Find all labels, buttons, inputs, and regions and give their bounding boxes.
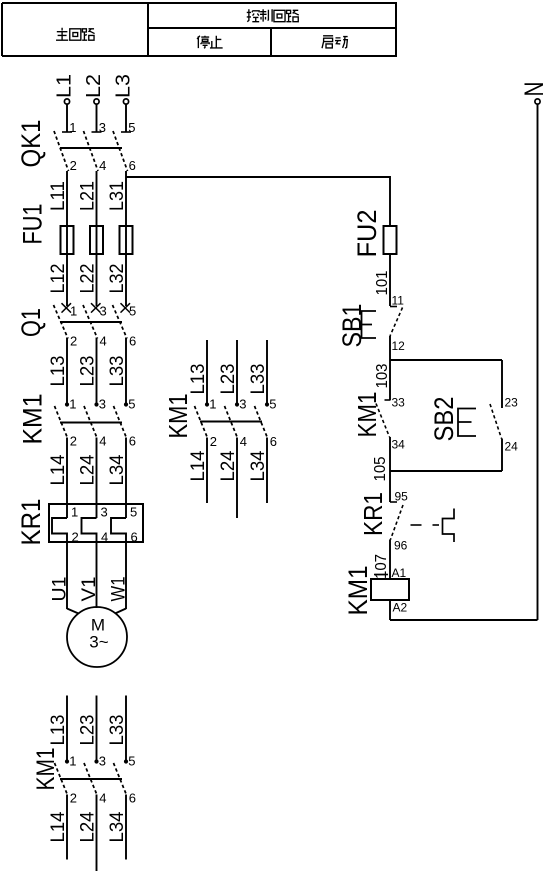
svg-text:KM1: KM1: [343, 566, 373, 616]
svg-text:3: 3: [101, 505, 108, 520]
svg-text:33: 33: [392, 396, 406, 410]
svg-text:N: N: [519, 82, 546, 97]
svg-text:KM1: KM1: [18, 394, 48, 445]
svg-text:L34: L34: [107, 454, 128, 485]
svg-text:L33: L33: [107, 356, 128, 387]
svg-text:SB1: SB1: [337, 304, 367, 348]
svg-text:101: 101: [374, 270, 391, 295]
svg-text:KM1: KM1: [32, 748, 60, 791]
svg-text:1: 1: [69, 120, 76, 135]
svg-text:2: 2: [210, 434, 217, 449]
svg-text:L13: L13: [188, 364, 209, 395]
svg-text:L1: L1: [54, 74, 76, 98]
svg-text:L33: L33: [107, 715, 128, 746]
svg-text:4: 4: [240, 434, 247, 449]
svg-text:L31: L31: [107, 181, 128, 211]
svg-text:L24: L24: [78, 811, 99, 842]
svg-text:1: 1: [69, 397, 76, 412]
svg-text:4: 4: [99, 434, 106, 449]
svg-text:L23: L23: [78, 356, 99, 387]
svg-text:W1: W1: [109, 577, 130, 602]
svg-text:KM1: KM1: [163, 394, 193, 439]
svg-text:L34: L34: [248, 450, 269, 481]
svg-text:96: 96: [394, 539, 408, 553]
svg-text:6: 6: [129, 334, 136, 349]
svg-text:5: 5: [269, 397, 276, 412]
svg-text:24: 24: [505, 440, 519, 454]
svg-text:5: 5: [128, 120, 135, 135]
svg-text:5: 5: [129, 304, 136, 319]
svg-text:L34: L34: [107, 811, 128, 842]
svg-text:L24: L24: [218, 450, 239, 481]
svg-text:L12: L12: [48, 264, 69, 294]
svg-text:4: 4: [99, 158, 106, 173]
svg-text:1: 1: [71, 505, 78, 520]
svg-text:V1: V1: [79, 577, 100, 602]
svg-text:U1: U1: [50, 577, 71, 602]
svg-text:12: 12: [392, 339, 406, 353]
svg-text:1: 1: [209, 397, 216, 412]
svg-text:5: 5: [130, 505, 137, 520]
svg-text:105: 105: [372, 456, 389, 481]
svg-text:34: 34: [392, 438, 406, 452]
svg-text:2: 2: [70, 334, 77, 349]
svg-text:L14: L14: [48, 811, 69, 842]
svg-text:FU1: FU1: [18, 204, 48, 245]
svg-text:3: 3: [99, 754, 106, 769]
svg-text:L3: L3: [113, 74, 135, 98]
svg-text:L23: L23: [218, 364, 239, 395]
svg-text:1: 1: [70, 304, 77, 319]
svg-text:L33: L33: [248, 364, 269, 395]
svg-text:6: 6: [129, 434, 136, 449]
svg-text:3: 3: [99, 397, 106, 412]
svg-text:L11: L11: [48, 181, 69, 211]
svg-text:5: 5: [128, 397, 135, 412]
svg-text:L13: L13: [48, 356, 69, 387]
svg-text:L14: L14: [188, 450, 209, 481]
svg-text:95: 95: [395, 490, 409, 504]
svg-text:1: 1: [69, 754, 76, 769]
svg-text:6: 6: [270, 434, 277, 449]
svg-text:6: 6: [129, 158, 136, 173]
svg-text:FU2: FU2: [352, 210, 382, 258]
svg-text:3~: 3~: [89, 633, 108, 652]
svg-text:L13: L13: [48, 715, 69, 746]
svg-text:11: 11: [392, 294, 405, 308]
svg-text:L32: L32: [107, 264, 128, 294]
svg-text:103: 103: [374, 363, 391, 388]
svg-text:KR1: KR1: [16, 499, 46, 546]
svg-text:3: 3: [239, 397, 246, 412]
svg-text:A2: A2: [393, 601, 408, 615]
svg-text:23: 23: [505, 396, 519, 410]
svg-text:L22: L22: [78, 264, 99, 294]
svg-text:2: 2: [70, 434, 77, 449]
svg-text:SB2: SB2: [429, 397, 459, 442]
svg-text:L21: L21: [78, 181, 99, 211]
svg-text:4: 4: [99, 791, 106, 806]
svg-text:3: 3: [100, 304, 107, 319]
svg-text:6: 6: [129, 791, 136, 806]
svg-text:A1: A1: [392, 566, 407, 580]
svg-text:2: 2: [70, 158, 77, 173]
svg-text:L24: L24: [78, 454, 99, 485]
svg-text:L2: L2: [83, 74, 105, 98]
svg-text:3: 3: [99, 120, 106, 135]
svg-text:4: 4: [100, 334, 107, 349]
svg-text:QK1: QK1: [16, 120, 46, 168]
svg-text:L14: L14: [48, 454, 69, 485]
svg-text:2: 2: [70, 791, 77, 806]
svg-text:KR1: KR1: [358, 492, 388, 536]
svg-text:L23: L23: [78, 715, 99, 746]
svg-text:5: 5: [128, 754, 135, 769]
svg-text:KM1: KM1: [352, 392, 382, 438]
svg-text:Q1: Q1: [16, 308, 46, 337]
